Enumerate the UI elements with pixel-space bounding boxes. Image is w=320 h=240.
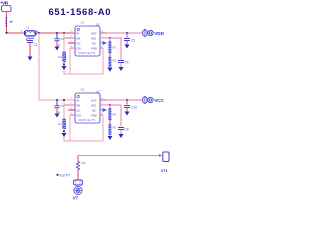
capacitor C1 (input bulk cap) — [26, 38, 38, 57]
ground arrow (C6) — [55, 114, 60, 118]
svg-text:VT: VT — [73, 196, 79, 200]
ground arrow (R divider top) — [108, 68, 113, 72]
svg-text:R5: R5 — [113, 126, 117, 130]
svg-text:ADJ: ADJ — [91, 103, 97, 107]
ground arrow (C10) — [125, 112, 130, 116]
svg-text:C4: C4 — [125, 61, 129, 65]
op-amp U1 (regulator IC, top) — [75, 20, 101, 56]
U1 pin numbers — [71, 31, 104, 48]
op-amp U2 (regulator IC, bottom) — [75, 87, 101, 123]
resistor R4 (x110 bottom, upper) — [109, 104, 117, 120]
svg-text:C8: C8 — [125, 128, 129, 132]
capacitor C4 (x121 top) — [110, 38, 129, 67]
svg-text:651-1568-A0: 651-1568-A0 — [49, 6, 112, 17]
power symbol VDD — [148, 30, 165, 36]
junction at 127 — [126, 32, 128, 34]
U2 right pin stubs — [100, 100, 110, 115]
resistor R3 — [76, 161, 85, 169]
junction at 127 row2 — [126, 99, 128, 101]
terminal VT1 — [161, 152, 169, 173]
svg-text:C1: C1 — [34, 43, 38, 47]
capacitor C2 at node x57 top row — [55, 33, 65, 47]
svg-text:+VIN: +VIN — [0, 0, 8, 5]
svg-text:NC: NC — [77, 41, 81, 45]
svg-text:NCP1117S: NCP1117S — [79, 51, 96, 55]
junction at x57 — [56, 32, 58, 34]
test point circle VT — [74, 186, 83, 195]
svg-text:OUT: OUT — [91, 31, 97, 35]
wire L1 to U1 pin1 — [36, 32, 75, 34]
ferrite bead FB2 — [143, 96, 147, 104]
svg-text:VT1: VT1 — [161, 169, 168, 173]
inductor L1 — [21, 26, 39, 39]
capacitor C5 at VDD rail — [124, 33, 135, 45]
svg-text:R2: R2 — [113, 59, 117, 63]
pin arrow into VT1 — [159, 154, 162, 156]
wire VT down — [77, 156, 79, 162]
resistor R1 (x110 top, upper) — [109, 37, 117, 53]
svg-text:PAD: PAD — [92, 46, 97, 50]
svg-text:IN: IN — [77, 98, 80, 102]
junction at x57 row2 — [56, 99, 58, 101]
output wire VDD — [106, 32, 143, 34]
no-connect arrow U2 pin3 — [100, 109, 106, 112]
ground arrow (R divider bottom) — [108, 136, 113, 140]
svg-text:NC: NC — [92, 108, 96, 112]
svg-text:GN: GN — [77, 113, 81, 117]
svg-text:U1: U1 — [81, 20, 85, 24]
power symbol VCC — [148, 97, 165, 103]
test pad rectangle TP1 — [74, 180, 83, 185]
title text 651-1568-A0 — [49, 6, 112, 17]
svg-text:NCP1117S: NCP1117S — [79, 118, 96, 122]
output wire VCC — [106, 99, 143, 101]
ground arrow (C7) — [62, 133, 67, 137]
U1 right pin stubs — [100, 33, 110, 48]
ground arrow (C2) — [55, 47, 60, 51]
svg-text:U2: U2 — [81, 87, 85, 91]
svg-text:R1: R1 — [113, 46, 117, 50]
ferrite bead FB1 — [143, 29, 147, 37]
wire to L1 — [6, 32, 24, 34]
svg-text:VCC: VCC — [154, 98, 164, 103]
capacitor C7 (hatched, below U2 left) — [58, 119, 66, 132]
ground arrow (C5) — [125, 45, 130, 49]
svg-text:C7: C7 — [58, 122, 62, 126]
wire +VIN down — [5, 12, 7, 34]
svg-text:GN: GN — [77, 46, 81, 50]
wire R3 to TP — [77, 170, 79, 180]
fuse F1 — [6, 18, 13, 27]
ground arrow (C3) — [62, 66, 67, 70]
svg-text:IN: IN — [77, 31, 80, 35]
junction at x66 — [63, 32, 65, 34]
node corner dot — [5, 32, 7, 34]
svg-text:EN: EN — [77, 36, 81, 40]
svg-text:L1: L1 — [26, 26, 30, 30]
svg-text:OUT: OUT — [91, 98, 97, 102]
svg-text:PAD: PAD — [92, 113, 97, 117]
junction at x39 — [38, 32, 40, 34]
svg-text:ADJ: ADJ — [91, 36, 97, 40]
capacitor C8 (x121 bottom) — [110, 105, 129, 134]
svg-text:C3: C3 — [58, 55, 62, 59]
wire VT horizontal — [78, 155, 160, 157]
svg-text:NC: NC — [77, 108, 81, 112]
svg-text:EN: EN — [77, 103, 81, 107]
svg-text:R3: R3 — [82, 161, 86, 165]
net label +VIN — [0, 0, 8, 5]
feedback loop wires U2 (pink box) — [63, 99, 103, 141]
capacitor C6 at node x57 bottom row — [55, 100, 65, 114]
ground arrow (C8) — [119, 134, 124, 138]
U1 left pin stubs — [64, 38, 75, 48]
wire input rail down to U2 row — [39, 33, 75, 100]
resistor R5 (x110 bottom, lower) — [109, 120, 117, 135]
ground arrow (C1) — [28, 57, 33, 61]
net label test PT — [56, 173, 70, 177]
svg-text:NC: NC — [92, 41, 96, 45]
label VT — [73, 196, 79, 201]
capacitor C3 (hatched, below U1 left) — [58, 52, 66, 65]
resistor R2 (x110 top, lower) — [109, 53, 117, 68]
svg-text:test PT: test PT — [60, 173, 71, 177]
connector J1 (+VIN port) — [2, 6, 12, 12]
no-connect arrow U1 pin3 — [100, 42, 106, 45]
svg-text:VDD: VDD — [154, 31, 164, 36]
svg-text:C5: C5 — [131, 39, 135, 43]
ground arrow (C4) — [119, 67, 124, 71]
capacitor C10 at VCC rail — [124, 100, 137, 112]
svg-text:R4: R4 — [113, 113, 117, 117]
svg-text:C10: C10 — [131, 106, 137, 110]
feedback loop wires U1 (pink box) — [64, 33, 103, 74]
U2 left pin stubs — [64, 105, 75, 115]
U2 pin numbers — [71, 98, 104, 115]
